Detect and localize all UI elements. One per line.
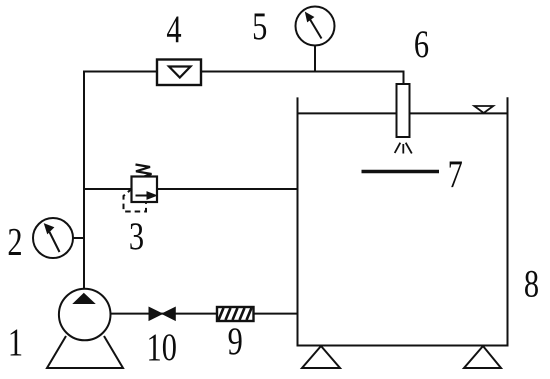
nozzle 6 body: [397, 84, 410, 137]
svg-text:5: 5: [252, 4, 267, 47]
shut-off valve 10 (bowtie): [149, 307, 175, 320]
flow meter U4 body: [157, 60, 201, 86]
wire: pump outlet bottom pipe to tank: [111, 313, 298, 315]
tank left foot: [302, 346, 340, 368]
target plate 7: [362, 170, 440, 174]
nozzle 6 spray lines: [395, 143, 412, 154]
pump 1 body: [59, 289, 111, 341]
svg-text:2: 2: [7, 220, 22, 263]
svg-text:6: 6: [414, 22, 429, 65]
pressure gauge 2 body: [33, 218, 73, 258]
wire: gauge 5 stem: [314, 45, 316, 72]
svg-text:1: 1: [8, 320, 23, 363]
wire: nozzle drop vertical: [403, 71, 405, 86]
wire: left riser from top pipe to pump inlet: [83, 71, 85, 290]
relief valve 3 body: [132, 177, 158, 203]
relief valve 3 pilot drain (dashed): [124, 189, 147, 212]
svg-text:10: 10: [146, 325, 176, 368]
svg-text:3: 3: [129, 214, 144, 257]
filter 9 hatching: [219, 308, 252, 320]
wire: relief-valve branch to tank: [84, 188, 298, 190]
tank 8: water surface line: [298, 112, 508, 114]
relief valve 3 spring: [136, 165, 152, 177]
wire: gauge 2 stem: [73, 237, 85, 239]
wire: top pipe from left riser to nozzle drop: [84, 71, 404, 73]
relief valve 3 flow arrow: [136, 192, 157, 199]
tank 8: bottom: [297, 345, 509, 347]
pressure gauge 5 needle: [306, 13, 322, 39]
tank 8: right wall: [507, 97, 509, 345]
tank right foot: [464, 346, 501, 368]
flow meter U4 float triangle: [169, 67, 191, 78]
pressure gauge 5 body: [296, 7, 335, 46]
svg-text:8: 8: [524, 262, 539, 305]
svg-text:7: 7: [448, 152, 463, 195]
pump 1 direction triangle: [74, 294, 95, 304]
pressure gauge 2 needle: [45, 224, 60, 252]
water level symbol: [474, 106, 493, 113]
tank 8: left wall: [297, 97, 299, 345]
svg-text:9: 9: [228, 319, 243, 362]
pump 1 stand: [47, 336, 123, 368]
svg-text:4: 4: [166, 7, 181, 50]
filter 9 body: [217, 307, 254, 321]
